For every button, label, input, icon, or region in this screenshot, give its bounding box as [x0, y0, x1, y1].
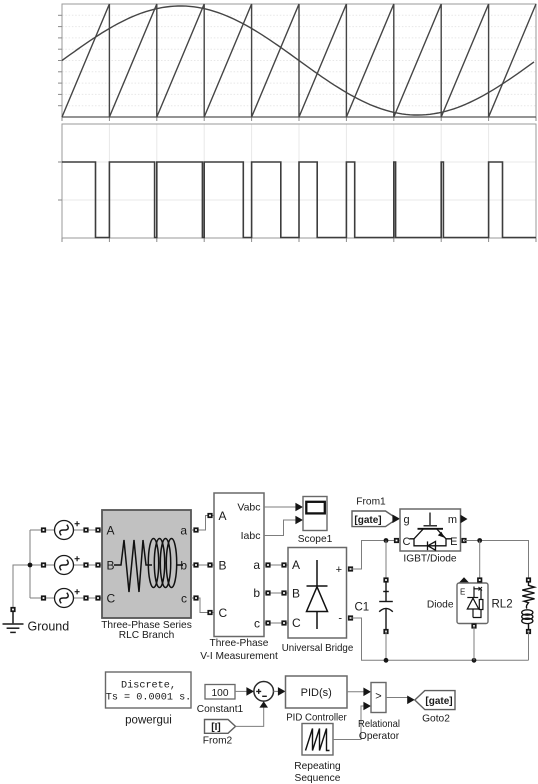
Diode port squares — [471, 577, 482, 628]
svg-text:From1: From1 — [356, 497, 386, 508]
port squares source rows — [41, 527, 101, 600]
wire: row B source left — [30, 564, 55, 566]
svg-text:B: B — [219, 559, 227, 573]
block: Three-Phase Series RLC Branch — [102, 510, 191, 618]
block: PID Controller — [286, 676, 348, 708]
svg-text:PID Controller: PID Controller — [286, 713, 347, 724]
From1 gate tag — [352, 511, 397, 527]
svg-text:V-I Measurement: V-I Measurement — [200, 651, 278, 662]
wire diode to rail — [473, 626, 475, 660]
port squares VI in — [207, 513, 212, 615]
block: IGBT/Diode — [400, 509, 461, 551]
svg-text:B: B — [292, 587, 300, 601]
svg-text:powergui: powergui — [125, 715, 172, 727]
svg-text:>: > — [375, 691, 381, 703]
svg-text:a: a — [180, 524, 187, 538]
wire VI b to UB B — [264, 592, 288, 594]
wire Vabc to scope — [264, 506, 297, 508]
grid verticals chart2 — [109, 124, 488, 238]
svg-text:Discrete,: Discrete, — [121, 680, 176, 692]
UB out port squares — [348, 566, 353, 620]
sum junction — [254, 682, 274, 702]
capacitor C1 — [379, 582, 393, 629]
From2 tag — [205, 720, 236, 734]
wire RLC b to VI B — [191, 564, 214, 566]
wire: row B source right to RLC — [74, 564, 103, 566]
inductor icon (RLC) — [148, 539, 183, 588]
IGBT arrowhead — [438, 532, 445, 538]
svg-text:C: C — [292, 616, 301, 630]
wire repseq to relop — [333, 706, 365, 740]
svg-text:Relational: Relational — [358, 719, 400, 730]
wire UB+ to IGBT C — [351, 541, 401, 570]
svg-text:-: - — [338, 613, 342, 625]
grid horizontals chart2 — [62, 162, 536, 200]
wire junction to diode block — [479, 541, 481, 581]
wire VI c to UB C — [264, 622, 288, 624]
AC voltage source Vc — [55, 589, 80, 608]
svg-text:C: C — [403, 536, 411, 548]
node: E rail junction — [477, 538, 482, 543]
block: Constant1 — [205, 685, 235, 700]
svg-text:c: c — [181, 592, 187, 606]
diode icon internals — [467, 587, 483, 618]
wire: row C source right to RLC — [74, 597, 103, 599]
antiparallel diode triangle — [428, 541, 436, 550]
port square IGBT E — [461, 538, 466, 543]
port squares VI out / UB in — [265, 562, 286, 625]
svg-text:C: C — [107, 592, 116, 606]
AC voltage source Vb — [55, 556, 80, 575]
svg-text:Diode: Diode — [427, 600, 454, 611]
svg-text:PID(s): PID(s) — [301, 687, 332, 699]
node: rail dot diode — [472, 658, 477, 663]
svg-text:Vabc: Vabc — [237, 502, 260, 514]
wire: ground feed — [13, 565, 30, 608]
port squares RLC out — [193, 527, 198, 600]
wire RLC a to VI A — [191, 516, 214, 531]
m output arrow — [461, 515, 468, 523]
wire constant to sum — [235, 690, 247, 692]
chart2 y ticks — [58, 162, 62, 200]
svg-text:100: 100 — [212, 688, 229, 699]
node: bus junction — [28, 563, 33, 568]
svg-text:Three-Phase: Three-Phase — [210, 638, 269, 649]
resistor icon (RLC) — [114, 540, 152, 592]
chart2 border — [62, 124, 536, 238]
block: Diode — [459, 577, 470, 583]
pulse waveform — [62, 162, 536, 238]
C1 port squares — [383, 577, 388, 634]
wire RLC c to VI C — [191, 598, 214, 613]
svg-text:B: B — [107, 559, 115, 573]
svg-text:[gate]: [gate] — [425, 696, 452, 707]
block: Relational Operator — [371, 683, 386, 713]
svg-text:Ts = 0.0001 s.: Ts = 0.0001 s. — [106, 693, 192, 704]
wire sum to PID — [274, 690, 280, 692]
node: rail dot C1 — [384, 658, 389, 663]
wire VI a to UB A — [264, 564, 288, 566]
ground port — [10, 607, 15, 612]
svg-text:IGBT/Diode: IGBT/Diode — [403, 554, 457, 565]
series RLC branch RL2 — [522, 583, 535, 630]
svg-text:[I]: [I] — [211, 722, 220, 733]
svg-text:Scope1: Scope1 — [298, 534, 333, 545]
RL2 port squares — [526, 577, 531, 634]
svg-text:m: m — [448, 514, 457, 526]
svg-text:Universal Bridge: Universal Bridge — [282, 643, 354, 654]
block: Scope1 — [303, 497, 327, 531]
block: Repeating Sequence — [302, 724, 333, 756]
svg-text:b: b — [253, 586, 260, 600]
Goto2 tag — [415, 691, 455, 710]
grid verticals chart1 — [109, 4, 488, 117]
svg-text:RLC Branch: RLC Branch — [119, 630, 175, 641]
svg-text:Iabc: Iabc — [241, 530, 261, 542]
svg-text:[gate]: [gate] — [354, 515, 381, 526]
svg-text:A: A — [107, 524, 115, 538]
svg-text:Operator: Operator — [359, 731, 400, 742]
block: powergui — [106, 672, 192, 708]
wire junction to C1 — [385, 541, 387, 581]
svg-text:C1: C1 — [355, 602, 370, 614]
block: Universal Bridge — [288, 548, 347, 639]
svg-text:g: g — [404, 514, 410, 526]
wire Iabc to scope — [264, 520, 297, 536]
node: plus rail junction — [384, 538, 389, 543]
svg-text:+: + — [336, 564, 342, 576]
svg-text:A: A — [219, 509, 227, 523]
wire: row C source left — [30, 597, 55, 599]
AC voltage source Va — [55, 521, 80, 540]
svg-text:RL2: RL2 — [492, 599, 513, 611]
diode icon (UB) — [307, 560, 328, 629]
wire RL2 to rail — [528, 632, 530, 661]
ground symbol — [3, 612, 24, 632]
wire: source bus vertical — [29, 530, 31, 598]
svg-text:Sequence: Sequence — [295, 773, 341, 784]
sine reference — [62, 6, 534, 115]
block: Three-Phase V-I Measurement — [214, 493, 264, 637]
wire PID to relop — [347, 691, 365, 693]
chart2 x ticks — [62, 238, 536, 242]
wire: row A source left — [30, 529, 55, 531]
svg-text:Repeating: Repeating — [294, 761, 341, 772]
wire E rail to RL2 — [464, 541, 529, 581]
IGBT symbol — [410, 513, 453, 551]
sawtooth carrier — [62, 4, 536, 117]
wire From2 to sum — [236, 708, 264, 727]
svg-text:C: C — [219, 606, 228, 620]
svg-text:E: E — [450, 536, 457, 548]
wire UB- to bottom rail — [351, 618, 529, 660]
RLC port labels — [107, 524, 188, 606]
svg-text:E: E — [460, 588, 465, 597]
chart1 y ticks — [58, 15, 62, 105]
scope input arrows — [295, 503, 303, 512]
svg-text:c: c — [254, 617, 260, 631]
chart1 border — [62, 4, 536, 117]
svg-text:A: A — [292, 558, 300, 572]
wire relop to goto — [386, 698, 408, 700]
svg-text:a: a — [253, 558, 260, 572]
grid horizontals chart1 (dashed) — [62, 15, 536, 105]
svg-text:Goto2: Goto2 — [422, 714, 450, 725]
wire: row A source right to RLC — [74, 529, 103, 531]
chart1 x ticks — [62, 117, 536, 121]
port square IGBT C — [394, 538, 399, 543]
svg-text:Ground: Ground — [28, 620, 70, 634]
svg-text:Constant1: Constant1 — [197, 704, 244, 715]
arrow into g — [392, 515, 400, 524]
wire C1 to bottom rail — [385, 632, 387, 661]
svg-text:From2: From2 — [203, 736, 233, 747]
